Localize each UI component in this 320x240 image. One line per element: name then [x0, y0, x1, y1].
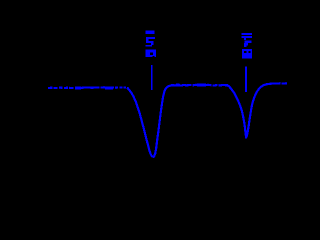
small gaps in dotted flat segments — [53, 81, 289, 90]
spectral line label 1 (rotated text, drawn as pixel glyphs) — [145, 31, 156, 58]
dashed marker line 2 (below right label) — [245, 67, 247, 93]
dashed marker line 1 (below left label) — [151, 65, 153, 90]
marker bead thickening on flats — [75, 83, 206, 89]
spectrum curve — [48, 83, 289, 156]
spectral line label 2 (rotated text, drawn as pixel glyphs) — [241, 33, 252, 59]
